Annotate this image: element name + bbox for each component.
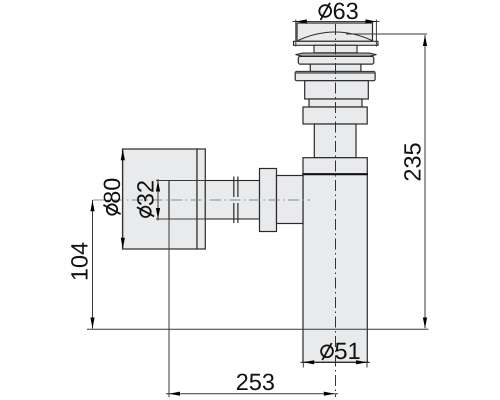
- dimension Ø63: extension lines: [295, 20, 297, 47]
- horizontal centerline: [93, 199, 310, 201]
- dimension 235: label: [404, 143, 421, 180]
- dimension 253: dimension line: [166, 393, 338, 395]
- dimension Ø32: arrows: [156, 181, 160, 220]
- hidden pipe edge through flange (bottom): [156, 218, 205, 220]
- dimension 104: dimension line: [92, 200, 94, 329]
- dimension Ø32: dimension line: [157, 179, 159, 221]
- dimension 253: left extension line: [168, 219, 170, 397]
- flange C with dark gasket top: [295, 72, 375, 81]
- dimension 235: top extension line: [346, 33, 427, 35]
- vertical centerline: [335, 24, 337, 397]
- dimension Ø32: label: [137, 181, 154, 217]
- hidden pipe edge through flange (top): [156, 180, 205, 182]
- rubber washer (dark): [296, 53, 377, 56]
- dimension Ø51: dimension line on body bottom edge: [301, 361, 370, 363]
- tube section D: [305, 81, 369, 99]
- neck G: [314, 124, 356, 158]
- connector sleeve: [277, 176, 304, 224]
- dimension 235: arrows: [423, 35, 427, 329]
- wall flange outer plate: [197, 149, 205, 249]
- dimension Ø80: arrows: [121, 149, 125, 248]
- dimension Ø63: dimension line: [293, 21, 380, 23]
- trap body top section H: [303, 158, 367, 175]
- dimension Ø63: label: [319, 3, 357, 20]
- groove E: [309, 99, 362, 107]
- dimension Ø51: arrows: [303, 360, 367, 364]
- inlet pipe Ø32: [205, 181, 259, 220]
- plug neck: [314, 45, 357, 53]
- cap base plate: [294, 41, 379, 45]
- dimension Ø51: extension stubs: [302, 362, 304, 367]
- dimension 235: dimension line: [424, 35, 426, 328]
- wall flange (Ø80): [123, 149, 198, 249]
- dimension Ø51: label: [321, 343, 359, 360]
- upper ring A: [298, 56, 374, 64]
- dimension Ø80: dimension line: [122, 149, 124, 249]
- cap dome (pop-up plug top): [297, 23, 373, 41]
- tube section F: [303, 107, 367, 124]
- ring B: [310, 64, 361, 71]
- dimension 104: label: [71, 243, 88, 280]
- dimension 253: label: [237, 374, 274, 391]
- trap body (Ø51 cup): [303, 174, 367, 362]
- dimension 253: arrows: [169, 392, 335, 396]
- wire: bottom shared extension line (104/235 datum): [87, 328, 429, 330]
- pipe end edge inside flange: [168, 181, 170, 220]
- dimension 104: arrows: [90, 200, 94, 328]
- dimension Ø63: arrows: [296, 19, 377, 23]
- compression nut: [260, 169, 277, 232]
- dimension Ø80: label: [103, 179, 120, 215]
- joint tick marks on pipe: [234, 177, 238, 224]
- joint line (dark) on body: [302, 173, 368, 175]
